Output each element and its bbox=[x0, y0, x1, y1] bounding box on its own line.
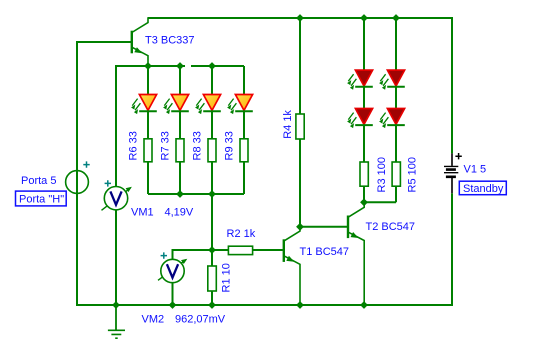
wire R1 upper bbox=[211, 250, 213, 266]
resistor R2 bbox=[228, 246, 252, 254]
wire R4 upper bbox=[299, 18, 301, 114]
wire VM2 lower bbox=[172, 283, 174, 306]
battery V1 bbox=[444, 153, 462, 193]
LED yellow 3 bbox=[195, 95, 221, 115]
ground bbox=[108, 305, 125, 338]
svg-text:Standby: Standby bbox=[463, 183, 504, 195]
svg-text:VM2: VM2 bbox=[142, 313, 165, 325]
wire column 3 segments bbox=[211, 66, 213, 194]
resistor R3 bbox=[360, 162, 368, 186]
wire R1 lower bbox=[211, 291, 213, 306]
wire left column (through source to bottom rail) bbox=[76, 42, 78, 307]
wire bottom rail bbox=[76, 304, 453, 306]
wire red columns join bbox=[364, 201, 396, 203]
resistor R7 bbox=[176, 139, 184, 162]
voltmeter VM2 bbox=[158, 252, 187, 282]
LED red 2 bbox=[379, 70, 405, 90]
wire VM2 horizontal bbox=[173, 249, 229, 251]
LED yellow 1 bbox=[131, 95, 157, 115]
svg-text:T3 BC337: T3 BC337 bbox=[145, 35, 195, 47]
LED yellow 4 bbox=[227, 95, 253, 115]
wire T3 base bbox=[76, 41, 131, 43]
wire red column 2 segments bbox=[395, 18, 397, 202]
wire R2 to T1 base bbox=[253, 249, 283, 251]
resistor R4 bbox=[296, 114, 304, 139]
wire VM1 upper bbox=[115, 65, 117, 187]
LED red 3 bbox=[347, 109, 373, 129]
svg-text:T1 BC547: T1 BC547 bbox=[300, 246, 350, 258]
wire R4 lower bbox=[299, 139, 301, 227]
wire right column upper (to battery) bbox=[451, 17, 453, 153]
svg-text:962,07mV: 962,07mV bbox=[175, 313, 226, 325]
svg-text:R7 33: R7 33 bbox=[160, 131, 172, 160]
wire LED top rail right segment bbox=[191, 65, 244, 67]
voltmeter VM1 bbox=[102, 180, 132, 210]
wire top rail bbox=[148, 17, 452, 19]
transistor T2 bbox=[347, 202, 364, 305]
transistor T1 bbox=[283, 227, 300, 305]
wire column 4 segments bbox=[243, 66, 245, 194]
wire T2 base bbox=[300, 226, 347, 228]
wire node R8 down bbox=[211, 194, 213, 250]
svg-text:R4 1k: R4 1k bbox=[282, 110, 294, 139]
svg-text:4,19V: 4,19V bbox=[165, 206, 194, 218]
wire red column 1 segments bbox=[363, 18, 365, 202]
resistor R9 bbox=[240, 139, 248, 162]
wire LED top rail left segment bbox=[116, 65, 185, 67]
voltage source Porta 5 bbox=[66, 161, 90, 193]
label box Standby bbox=[459, 181, 506, 195]
svg-text:Porta "H": Porta "H" bbox=[19, 194, 64, 206]
resistor R8 bbox=[208, 139, 216, 162]
svg-text:R1 10: R1 10 bbox=[221, 263, 233, 292]
label box Porta "H" bbox=[16, 191, 67, 206]
svg-text:R9 33: R9 33 bbox=[224, 131, 236, 160]
wire column 2 segments bbox=[179, 66, 181, 194]
svg-text:R8 33: R8 33 bbox=[192, 131, 204, 160]
svg-text:VM1: VM1 bbox=[131, 206, 154, 218]
svg-text:T2 BC547: T2 BC547 bbox=[366, 221, 416, 233]
LED red 1 bbox=[347, 70, 373, 90]
svg-text:R3 100: R3 100 bbox=[376, 157, 388, 192]
svg-text:V1 5: V1 5 bbox=[464, 164, 487, 176]
resistor R1 bbox=[208, 266, 217, 291]
transistor T3 bbox=[131, 17, 148, 66]
LED red 4 bbox=[379, 109, 405, 129]
svg-text:R6 33: R6 33 bbox=[128, 131, 140, 160]
svg-text:R5 100: R5 100 bbox=[407, 157, 419, 192]
wire VM1 lower bbox=[115, 210, 117, 306]
wire VM2 drop upper bbox=[172, 249, 174, 259]
wire column 1 segments bbox=[147, 66, 149, 194]
svg-text:R2 1k: R2 1k bbox=[227, 228, 256, 240]
wire right column lower (battery to bottom rail) bbox=[451, 193, 453, 306]
svg-text:Porta 5: Porta 5 bbox=[21, 175, 56, 187]
wire LED bottom rail bbox=[148, 193, 244, 195]
resistor R5 bbox=[392, 162, 400, 186]
LED yellow 2 bbox=[163, 95, 189, 115]
resistor R6 bbox=[144, 139, 152, 162]
